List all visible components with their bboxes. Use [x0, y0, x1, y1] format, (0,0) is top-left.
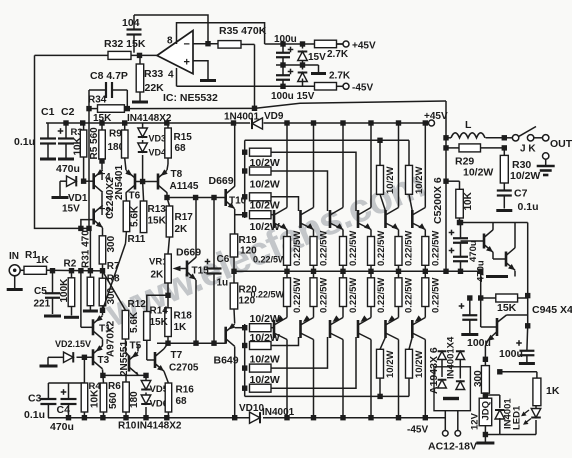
- svg-text:10K: 10K: [90, 389, 101, 408]
- svg-text:2K: 2K: [175, 224, 189, 235]
- wire pin8 supply: [177, 23, 265, 44]
- svg-text:100u 15V: 100u 15V: [271, 91, 315, 102]
- transistor A1943 bottom Q6: [411, 320, 414, 338]
- svg-text:AC12-18V: AC12-18V: [428, 441, 477, 453]
- svg-text:2.7K: 2.7K: [327, 49, 349, 60]
- wiper arrow VR1: [179, 268, 187, 270]
- svg-text:C7: C7: [514, 188, 528, 200]
- wire T8 collector to bus: [166, 193, 168, 198]
- wire collector Q1: [286, 123, 288, 208]
- wire T2 base from feedback: [81, 220, 94, 229]
- switch JK: [504, 137, 512, 139]
- transistor T2 C2240: [92, 209, 95, 225]
- svg-text:0.22/5W: 0.22/5W: [251, 290, 285, 300]
- svg-text:68: 68: [176, 396, 188, 407]
- svg-text:OUT: OUT: [550, 138, 572, 150]
- svg-text:10/2W: 10/2W: [414, 167, 425, 194]
- svg-text:T7: T7: [171, 350, 183, 361]
- transistor A1943 bottom Q5: [384, 320, 387, 338]
- svg-text:1K: 1K: [36, 255, 50, 266]
- svg-text:C2: C2: [61, 106, 75, 118]
- wire C3C4 top line: [48, 382, 84, 384]
- svg-text:R18: R18: [174, 311, 193, 322]
- resistor 2.7K lower: [315, 83, 337, 91]
- svg-text:R9: R9: [109, 129, 122, 140]
- resistor 15K servo: [496, 294, 518, 302]
- bottom driver bus: [157, 342, 226, 344]
- svg-text:J K: J K: [520, 144, 536, 155]
- svg-text:0.1u: 0.1u: [518, 201, 539, 213]
- svg-text:0.22/5W: 0.22/5W: [319, 278, 330, 313]
- capacitor C7 0.1u: [497, 189, 512, 191]
- svg-text:1K: 1K: [546, 385, 560, 397]
- wire mid node: [276, 64, 319, 66]
- transistor T8 A1145: [157, 174, 160, 190]
- transistor T3 A970: [92, 349, 95, 365]
- svg-text:0.22/5W: 0.22/5W: [404, 231, 415, 266]
- wire T1 emitter to R8: [102, 310, 104, 315]
- wire collector bottom Q2: [313, 307, 315, 318]
- svg-text:560: 560: [108, 392, 119, 409]
- svg-text:470u: 470u: [468, 240, 479, 262]
- resistor 2.7K upper: [315, 40, 337, 48]
- svg-text:10/2W: 10/2W: [414, 351, 425, 378]
- led LED1: [531, 409, 541, 418]
- wire collector bottom Q3: [342, 307, 344, 318]
- ground R33: [132, 101, 148, 104]
- wire T9 emitter to R20: [233, 309, 236, 324]
- svg-text:R10: R10: [118, 421, 137, 432]
- fan wires bottom: [271, 337, 299, 346]
- resistor 0.22/5W top col6: [422, 237, 429, 266]
- wire collector Q3: [342, 123, 344, 208]
- svg-text:IN4001X4: IN4001X4: [446, 336, 457, 379]
- terminal -45V psu: [343, 83, 349, 89]
- wire R3 to VD1 node: [83, 157, 85, 181]
- svg-text:0.1u: 0.1u: [14, 136, 35, 148]
- resistor 10/2W v2: [406, 165, 413, 194]
- svg-text:0.22/5W: 0.22/5W: [292, 231, 303, 266]
- driver bus line: [167, 197, 226, 199]
- svg-text:0.22/5W: 0.22/5W: [348, 278, 359, 313]
- svg-text:15K: 15K: [497, 302, 517, 314]
- wire feedback R34 to output line: [124, 107, 254, 109]
- terminal below OUT: [543, 153, 549, 159]
- resistor 0.22/5W top col2: [310, 237, 317, 266]
- svg-text:T3: T3: [98, 355, 110, 366]
- diode IN4001 relay: [495, 410, 505, 419]
- resistor 10/2W d: [250, 211, 272, 219]
- svg-text:C5200X 6: C5200X 6: [432, 177, 444, 224]
- transistor C5200 top Q2: [299, 210, 302, 228]
- servo transistor A: [483, 234, 486, 249]
- svg-text:15K: 15K: [150, 317, 169, 328]
- line to vertical 10/2W pair: [245, 139, 409, 141]
- svg-text:IN4148X2: IN4148X2: [127, 113, 172, 124]
- resistor 10/2W bottom d: [250, 384, 272, 392]
- svg-text:R34: R34: [88, 95, 107, 106]
- wire inverting input: [193, 43, 218, 45]
- svg-text:0.22/5W: 0.22/5W: [404, 278, 415, 313]
- svg-text:R33: R33: [144, 68, 163, 80]
- transistor A1943 bottom Q4: [357, 320, 360, 338]
- wire R9 to T6 emitter: [125, 158, 126, 170]
- svg-text:T5: T5: [130, 341, 142, 352]
- svg-text:10/2W: 10/2W: [510, 170, 540, 182]
- svg-text:0.22/5W: 0.22/5W: [376, 231, 387, 266]
- svg-text:2N5401: 2N5401: [114, 165, 125, 200]
- terminal +45V psu: [343, 41, 349, 47]
- svg-text:+: +: [184, 57, 190, 69]
- wire +15V rail: [265, 43, 346, 45]
- resistor R33 22K: [136, 64, 144, 92]
- wire T1 collector to T3: [101, 339, 103, 346]
- svg-text:R35 470K: R35 470K: [219, 25, 267, 37]
- wire node to 1K: [500, 371, 537, 373]
- wire T15 emitter: [195, 280, 197, 343]
- svg-text:0.1u: 0.1u: [24, 409, 45, 421]
- svg-text:0.22/5W: 0.22/5W: [348, 231, 359, 266]
- servo transistor B: [505, 252, 508, 267]
- resistor R29 10/2W: [459, 144, 481, 152]
- wire R35 right to feedback node: [254, 44, 256, 108]
- resistor 0.22/5W bottom col3: [340, 278, 347, 307]
- transistor T6 2N5401: [134, 174, 137, 190]
- transistor C5200 top Q3: [329, 210, 332, 228]
- transistor A1943 bottom Q2: [299, 320, 302, 338]
- svg-text:R19: R19: [239, 235, 258, 246]
- svg-text:10/2W: 10/2W: [250, 354, 280, 366]
- resistor 0.22/5W bottom col6: [422, 278, 429, 307]
- capacitor 470u b: [449, 250, 455, 252]
- wire VR1 bottom node: [167, 283, 169, 295]
- svg-text:1u: 1u: [217, 278, 229, 289]
- transistor C5200 top Q5: [384, 210, 387, 228]
- transistor C5200 top Q1: [273, 210, 276, 228]
- svg-text:10/2W: 10/2W: [250, 200, 280, 212]
- svg-text:A1145: A1145: [170, 181, 199, 192]
- svg-text:0.22/5W: 0.22/5W: [319, 231, 330, 266]
- svg-text:C6: C6: [217, 254, 230, 265]
- svg-text:0.22/5W: 0.22/5W: [376, 278, 387, 313]
- svg-text:104: 104: [122, 17, 140, 29]
- transistor C5200 top Q6: [411, 210, 414, 228]
- op-amp U1 NE5532: [157, 31, 193, 74]
- svg-text:5.6K: 5.6K: [129, 311, 140, 333]
- svg-text:R15: R15: [174, 132, 193, 143]
- led arrows: [523, 410, 530, 415]
- svg-text:C1: C1: [41, 106, 55, 118]
- wire +45V rail: [46, 122, 250, 124]
- capacitor 100u servo: [459, 305, 465, 307]
- svg-text:IN4001: IN4001: [262, 407, 295, 418]
- resistor 10/2W bottom v1: [377, 349, 384, 378]
- capacitor 470u a: [449, 232, 455, 234]
- svg-text:221: 221: [34, 299, 51, 310]
- transistor C945 lower: [496, 318, 499, 336]
- svg-text:180: 180: [129, 391, 140, 408]
- wire -15V rail: [177, 85, 315, 87]
- svg-text:D669: D669: [176, 247, 201, 259]
- resistor 10/2W bottom a: [250, 324, 272, 332]
- wire 104 top to inverting input: [134, 15, 208, 44]
- wire T10 emitter node: [234, 209, 236, 234]
- zener VD lower 15V: [298, 73, 308, 82]
- svg-text:L: L: [465, 119, 472, 131]
- svg-text:A970X2: A970X2: [106, 320, 117, 357]
- svg-text:VD4: VD4: [149, 148, 167, 158]
- relay JDQ: [479, 398, 492, 426]
- svg-text:C3: C3: [28, 393, 42, 405]
- bridge diode 4: [456, 381, 465, 389]
- svg-text:R11: R11: [128, 234, 146, 245]
- transistor T9 B649: [224, 327, 227, 344]
- wire T8 emitter to R15: [167, 164, 168, 170]
- resistor 10/2W bottom v2: [406, 349, 413, 378]
- AC terminals: [443, 431, 449, 437]
- svg-text:300: 300: [106, 235, 117, 252]
- svg-text:10/2W: 10/2W: [385, 167, 396, 194]
- resistor 0.22/5W bottom col2: [310, 278, 317, 307]
- wire T10 collector up: [234, 123, 236, 187]
- svg-text:4: 4: [168, 70, 174, 81]
- servo right vertical: [514, 223, 516, 248]
- svg-text:10/2W: 10/2W: [250, 374, 280, 386]
- svg-text:10K: 10K: [463, 191, 474, 210]
- svg-text:2.7K: 2.7K: [329, 71, 351, 82]
- crossing wire R7 to R12: [103, 271, 126, 310]
- transistor T15: [186, 261, 189, 277]
- wire collector Q2: [313, 123, 315, 208]
- wire collector bottom Q4: [370, 307, 372, 318]
- left column bottom: [244, 324, 246, 396]
- ground mid: [318, 65, 320, 72]
- svg-text:22K: 22K: [145, 82, 165, 94]
- resistor 10/2W bottom b: [250, 342, 272, 350]
- svg-text:15V: 15V: [308, 52, 326, 63]
- svg-text:VD2.15V: VD2.15V: [55, 339, 91, 349]
- servo top line: [460, 222, 528, 224]
- svg-text:1N4001: 1N4001: [224, 112, 259, 123]
- fan wires top: [271, 152, 356, 211]
- svg-text:15V: 15V: [62, 204, 80, 215]
- wire relay top node: [485, 394, 499, 396]
- svg-text:C2705: C2705: [169, 363, 199, 374]
- svg-text:C8 4.7P: C8 4.7P: [90, 70, 128, 82]
- wire collector Q5: [398, 123, 400, 208]
- svg-text:T6: T6: [129, 191, 141, 202]
- svg-text:12V: 12V: [470, 412, 481, 430]
- resistor 0.22/5W top col5: [395, 237, 402, 266]
- wire VD2 node down to R4: [83, 357, 85, 383]
- wire T9 collector to rail: [234, 347, 236, 418]
- svg-text:0.22/5W: 0.22/5W: [253, 255, 287, 265]
- wire noninverting input to ground: [193, 61, 208, 79]
- resistor 0.22/5W top col3: [340, 237, 347, 266]
- svg-text:2K: 2K: [151, 270, 165, 281]
- svg-text:0.22/5W: 0.22/5W: [430, 231, 441, 266]
- svg-text:T2: T2: [99, 207, 111, 218]
- svg-text:100u: 100u: [499, 348, 523, 360]
- transistor T7 C2705: [154, 352, 157, 368]
- wire T3 collector: [102, 369, 104, 375]
- wire R34 C8 column: [88, 109, 90, 229]
- svg-text:IC: NE5532: IC: NE5532: [163, 92, 218, 104]
- svg-text:T15: T15: [192, 266, 210, 277]
- svg-text:C945 X4: C945 X4: [532, 304, 572, 316]
- svg-text:-45V: -45V: [407, 425, 428, 436]
- resistor 10K: [446, 180, 460, 182]
- main output vertical: [445, 101, 447, 271]
- emitter line y375: [103, 374, 146, 376]
- svg-text:R16: R16: [176, 385, 195, 396]
- transistor T1 A970: [92, 319, 95, 335]
- svg-text:R32 15K: R32 15K: [104, 38, 146, 50]
- output bus: [234, 270, 481, 272]
- svg-text:R12: R12: [128, 299, 147, 310]
- svg-text:0.22/5W: 0.22/5W: [430, 278, 441, 313]
- capacitor 100u lower: [276, 74, 290, 76]
- terminal +45V main: [429, 120, 435, 126]
- svg-text:T8: T8: [171, 169, 183, 180]
- svg-text:C5: C5: [34, 286, 47, 297]
- svg-text:D669: D669: [209, 175, 234, 187]
- bridge diode 2: [456, 351, 465, 359]
- svg-text:10/2W: 10/2W: [250, 332, 280, 344]
- svg-text:10/2W: 10/2W: [385, 351, 396, 378]
- wire pin4 supply: [176, 68, 178, 86]
- resistor 10/2W v1: [377, 165, 384, 194]
- svg-text:470u: 470u: [50, 421, 74, 433]
- svg-text:R14: R14: [150, 306, 169, 317]
- svg-text:LED1: LED1: [512, 405, 523, 430]
- svg-text:R2: R2: [64, 259, 77, 270]
- wire collector Q6: [424, 123, 426, 208]
- resistor 10/2W bottom c: [250, 364, 272, 372]
- svg-text:5.6K: 5.6K: [130, 205, 141, 227]
- wire T15 collector: [195, 198, 197, 258]
- wire collector bottom Q1: [286, 307, 288, 318]
- svg-text:1K: 1K: [174, 322, 188, 333]
- svg-text:10/2W: 10/2W: [250, 179, 280, 191]
- bridge diode 3: [438, 380, 447, 388]
- svg-text:10/2W: 10/2W: [250, 313, 280, 325]
- svg-text:+45V: +45V: [352, 41, 376, 52]
- bridge diode 1: [438, 351, 447, 359]
- svg-text:10/2W: 10/2W: [463, 167, 493, 179]
- zener VD upper 15V: [298, 52, 308, 61]
- node op-amp output: [137, 53, 142, 58]
- svg-text:R13: R13: [148, 204, 167, 215]
- wire feedback left drop: [35, 55, 91, 228]
- resistor 10/2W c: [250, 193, 272, 201]
- resistor 0.22/5W top col4: [368, 237, 375, 266]
- transistor T10 D669: [224, 189, 227, 206]
- svg-text:IN: IN: [9, 251, 19, 262]
- svg-text:R6: R6: [108, 381, 121, 392]
- svg-text:8: 8: [167, 36, 173, 47]
- resistor 0.22/5W bottom col1: [284, 278, 291, 307]
- resistor 0.22/5W top col1: [284, 237, 291, 266]
- svg-text:470u: 470u: [56, 163, 80, 175]
- wire collector Q4: [370, 123, 372, 208]
- servo ground: [486, 275, 508, 278]
- resistor 10/2W a: [250, 148, 272, 156]
- svg-text:68: 68: [175, 143, 187, 154]
- svg-text:VD9: VD9: [264, 111, 284, 122]
- wire collector bottom Q5: [398, 307, 400, 318]
- svg-text:R17: R17: [175, 212, 194, 223]
- wire C945 emitter arrow: [488, 332, 497, 341]
- resistor 0.22/5W bottom col5: [395, 278, 402, 307]
- wire C945 collector: [497, 315, 507, 323]
- svg-text:IN4148X2: IN4148X2: [137, 421, 182, 432]
- svg-text:VD3: VD3: [149, 134, 167, 144]
- svg-text:JDQ: JDQ: [481, 401, 492, 421]
- svg-text:-45V: -45V: [352, 83, 373, 94]
- resistor 1K: [533, 378, 541, 406]
- svg-text:15K: 15K: [148, 216, 167, 227]
- bridge rectifier box: [434, 367, 470, 411]
- transistor A1943 bottom Q3: [329, 320, 332, 338]
- svg-text:10/2W: 10/2W: [250, 221, 280, 233]
- svg-text:0.22/5W: 0.22/5W: [292, 278, 303, 313]
- resistor R30 10/2W: [500, 155, 508, 183]
- transistor C5200 top Q4: [357, 210, 360, 228]
- -45V rail: [48, 417, 250, 419]
- transistor A1943 bottom Q1: [273, 320, 276, 338]
- resistor 10/2W b: [250, 167, 272, 175]
- left column 10/2W top: [244, 140, 246, 218]
- transistor T4 2N5401: [92, 173, 95, 189]
- svg-text:VD1: VD1: [68, 193, 88, 204]
- zener VD1 15V: [67, 176, 77, 186]
- svg-text:−: −: [184, 39, 190, 51]
- resistor 0.22/5W bottom col4: [368, 278, 375, 307]
- bridge caps bar: [443, 397, 459, 400]
- wire collector bottom Q6: [424, 307, 426, 318]
- wire VD1 to T4 base: [84, 180, 94, 182]
- crossing wire R11 to R8: [103, 244, 126, 311]
